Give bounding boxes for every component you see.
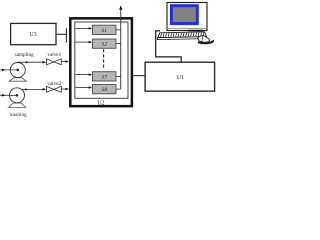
keyboard bbox=[158, 32, 207, 38]
pump sampling base bbox=[9, 78, 26, 81]
wire fork at U2 left bbox=[65, 28, 67, 42]
pump sampling hub dot bbox=[16, 69, 19, 72]
pump sampling inlet arrow bbox=[0, 69, 18, 71]
sensor S1 bbox=[92, 25, 116, 34]
wire into S2 bbox=[75, 41, 89, 43]
keyboard keys bbox=[161, 32, 204, 37]
ellipsis dashed line bbox=[103, 49, 105, 69]
svg-text:valve1: valve1 bbox=[47, 52, 61, 58]
monitor screen blue frame bbox=[171, 6, 197, 24]
box U1 bbox=[145, 62, 215, 91]
pump washing base bbox=[8, 103, 26, 107]
svg-text:valve2: valve2 bbox=[47, 81, 61, 87]
output bus with up arrow bbox=[120, 9, 122, 89]
wire S1 out bbox=[116, 29, 121, 31]
svg-text:S8: S8 bbox=[101, 87, 107, 93]
wire S8 out bbox=[116, 88, 121, 90]
svg-text:S1: S1 bbox=[101, 28, 107, 34]
chamber U2 outer box bbox=[70, 18, 132, 106]
wire into S1 bbox=[75, 27, 89, 29]
box U3 bbox=[11, 23, 56, 44]
monitor slot bbox=[168, 28, 207, 30]
pump sampling circle bbox=[10, 63, 25, 78]
svg-text:S7: S7 bbox=[101, 74, 107, 80]
svg-text:washing: washing bbox=[9, 112, 27, 118]
computer monitor bbox=[167, 3, 207, 31]
svg-text:U2: U2 bbox=[97, 100, 104, 106]
wire into S7 bbox=[75, 74, 89, 76]
wire into S8 bbox=[75, 87, 89, 89]
sensor S7 bbox=[92, 72, 116, 81]
svg-text:sampling: sampling bbox=[15, 52, 34, 58]
wire S7 out bbox=[116, 75, 121, 77]
mouse shadow bbox=[198, 40, 215, 44]
wire S2 out bbox=[116, 43, 121, 45]
chamber U2 inner rect bbox=[75, 22, 128, 98]
mouse bbox=[198, 36, 210, 43]
wire valve2 to U2 bbox=[61, 88, 66, 90]
valve V2 bbox=[47, 86, 62, 92]
pump washing circle bbox=[10, 88, 25, 103]
wire pump to valve2 bbox=[21, 88, 44, 90]
pump washing inlet arrow bbox=[0, 94, 17, 96]
wire U2 to U1 bbox=[133, 75, 145, 77]
wire pump to valve1 bbox=[18, 61, 44, 63]
valve V1 bbox=[47, 59, 62, 65]
computer cable bbox=[156, 31, 182, 62]
pump washing hub dot bbox=[16, 94, 19, 97]
svg-text:S2: S2 bbox=[101, 42, 107, 48]
sensor S2 bbox=[92, 39, 116, 48]
svg-text:U1: U1 bbox=[177, 75, 184, 81]
wire valve1 to U2 bbox=[61, 61, 66, 63]
wire U3 to U2 bbox=[56, 33, 66, 35]
sensor S8 bbox=[92, 85, 116, 94]
svg-text:U3: U3 bbox=[29, 32, 36, 38]
